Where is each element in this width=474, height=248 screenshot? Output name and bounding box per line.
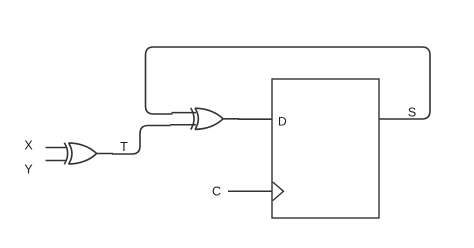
svg-text:S: S <box>408 106 416 120</box>
svg-text:D: D <box>278 115 287 129</box>
wire D (G2 output to flip-flop D input) <box>223 118 272 120</box>
wire Y input <box>46 160 67 162</box>
clock triangle (flip-flop C pin) <box>273 182 284 201</box>
wire G2 upper input stub <box>172 112 197 114</box>
wire T (G1 output up to G2 lower input) <box>97 126 171 155</box>
flip-flop U1 body <box>272 79 379 218</box>
svg-text:T: T <box>120 140 128 154</box>
wire G2 lower input stub <box>170 124 196 126</box>
svg-text:C: C <box>212 185 221 199</box>
wire feedback S (flip-flop output wrapping around top to G2 upper input) <box>146 47 431 119</box>
svg-text:X: X <box>24 139 33 153</box>
wire C clock input <box>228 190 272 192</box>
svg-text:Y: Y <box>24 163 33 177</box>
xor-gate G2 <box>191 108 223 130</box>
xor-gate G1 <box>64 143 96 165</box>
wire X input <box>46 147 67 149</box>
